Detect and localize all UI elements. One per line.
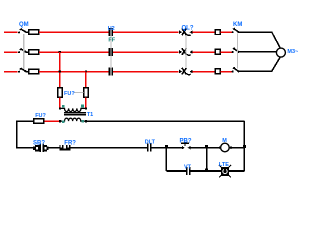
linkage FU2-FU3 [74, 92, 84, 94]
wire branch B down [206, 148, 208, 171]
wire L1 fuse to contact [39, 31, 109, 33]
svg-text:LTE: LTE [219, 162, 229, 168]
wire L2 heater to contactor [220, 51, 232, 53]
wire PB to coil [190, 147, 220, 149]
wire phase L3 supply [4, 71, 18, 73]
wire VT to lamp [191, 170, 221, 172]
wire L2 fuse to contact [39, 51, 109, 53]
wire L2 contact to breaker [113, 51, 178, 53]
node secondary left [59, 120, 61, 122]
coil M body [221, 143, 230, 152]
node branch B [205, 145, 208, 148]
linkage QL breaker poles [185, 35, 187, 68]
transformer T1 secondary winding [61, 118, 85, 121]
wire SB to FR [49, 147, 60, 149]
transformer T1 primary winding [60, 108, 86, 111]
pin T1 primary left [62, 105, 65, 108]
overload relay FR contact [59, 144, 70, 151]
svg-text:FF: FF [108, 38, 115, 44]
wire FR to DLT [71, 147, 147, 149]
wire coil to right rail [229, 147, 244, 149]
contactor KM pole L2 [232, 48, 240, 53]
svg-text:SB?: SB? [33, 141, 45, 147]
wire L3 to motor [239, 57, 280, 71]
svg-text:M: M [222, 138, 227, 144]
wire L1 contact to breaker [113, 31, 178, 33]
node branch A [165, 145, 168, 148]
svg-text:FU?: FU? [35, 113, 46, 119]
contact U2 bars L3 [109, 67, 113, 75]
svg-text:FR?: FR? [64, 141, 76, 147]
wire L1 heater to contactor [220, 31, 232, 33]
wire T1 secondary to fuse FU4 [44, 120, 61, 122]
pin T1 secondary right [81, 120, 84, 123]
wire FU2 to T1 primary [59, 97, 61, 108]
wire L3 heater to contactor [220, 71, 232, 73]
breaker QL pole L2 [179, 48, 193, 55]
transformer T1 core [64, 113, 86, 115]
fuse FU1 L2 body [29, 50, 39, 55]
wire L3 contact to breaker [113, 71, 178, 73]
node L3 crossing [59, 70, 61, 72]
node T1 primary right [85, 107, 87, 109]
linkage QM1 poles [23, 34, 25, 69]
motor M3 [276, 48, 285, 57]
svg-text:QL?: QL? [182, 26, 194, 32]
wire L2 breaker to heater [193, 51, 216, 53]
wire branch A down [165, 148, 167, 171]
pushbutton PB start [181, 143, 190, 150]
node T1 primary left [59, 107, 61, 109]
wire L3 breaker to heater [193, 71, 216, 73]
fuse FU4 body [34, 119, 44, 124]
wire FU4 to left rail [17, 121, 34, 148]
contact U2 bars L2 [109, 48, 113, 56]
node secondary right [85, 120, 87, 122]
svg-text:KM: KM [233, 22, 242, 28]
wire phase L1 supply [4, 31, 18, 33]
fuse FU2 body [58, 88, 63, 97]
svg-text:DLT: DLT [145, 139, 156, 145]
wire L1 to motor [239, 32, 280, 48]
thermal heater element L3 [215, 69, 220, 74]
contact VT bars [186, 167, 191, 175]
svg-text:U2: U2 [108, 26, 115, 32]
thermal heater element L1 [215, 30, 220, 35]
svg-text:T1: T1 [87, 112, 93, 118]
fuse FU1 L1 body [29, 30, 39, 35]
contactor KM pole L3 [232, 67, 240, 72]
thermal heater element L2 [215, 49, 220, 54]
breaker QL pole L1 [179, 29, 193, 36]
switch QM1 pole L3 [18, 68, 29, 73]
node L2 tap [59, 51, 61, 53]
pin T1 primary right [81, 105, 84, 108]
node branch B bottom [205, 169, 208, 172]
wire branch A to VT [166, 170, 186, 172]
wire DLT to PB [151, 147, 182, 149]
svg-text:FU?: FU? [64, 91, 75, 97]
pushbutton SB stop [33, 143, 48, 152]
lamp LTE [219, 165, 231, 178]
wire phase L2 supply [4, 51, 18, 53]
linkage U2 contact poles [110, 36, 112, 67]
fuse FU1 L3 body [29, 69, 39, 74]
wire right rail [243, 121, 245, 171]
wire L3 fuse to contact [39, 71, 109, 73]
switch QM1 pole L2 [18, 49, 29, 54]
wire T1 secondary to right rail [84, 120, 244, 122]
node right rail [243, 145, 246, 148]
svg-text:VT: VT [184, 165, 192, 171]
wire FU3 to T1 primary [85, 97, 87, 108]
wire L1 breaker to heater [193, 31, 216, 33]
pin T1 secondary left [62, 120, 65, 123]
node L3 tap [85, 70, 87, 72]
linkage KM poles [236, 34, 238, 69]
contactor KM pole L1 [232, 28, 240, 33]
fuse FU3 body [84, 88, 89, 97]
breaker QL pole L3 [179, 68, 193, 75]
wire L3 tap to fuse FU3 [85, 71, 87, 88]
coil M terminals [219, 146, 231, 149]
switch QM1 pole L1 [18, 29, 29, 34]
wire L2 tap to fuse FU2 [59, 52, 61, 88]
svg-text:QM: QM [19, 22, 29, 28]
contact DLT bars [147, 144, 152, 152]
svg-text:M3~: M3~ [287, 49, 298, 55]
svg-text:PB?: PB? [180, 139, 192, 145]
wire lamp to right rail [229, 170, 244, 172]
contact U2 bars L1 [109, 28, 113, 36]
wire L2 to motor [239, 51, 277, 53]
